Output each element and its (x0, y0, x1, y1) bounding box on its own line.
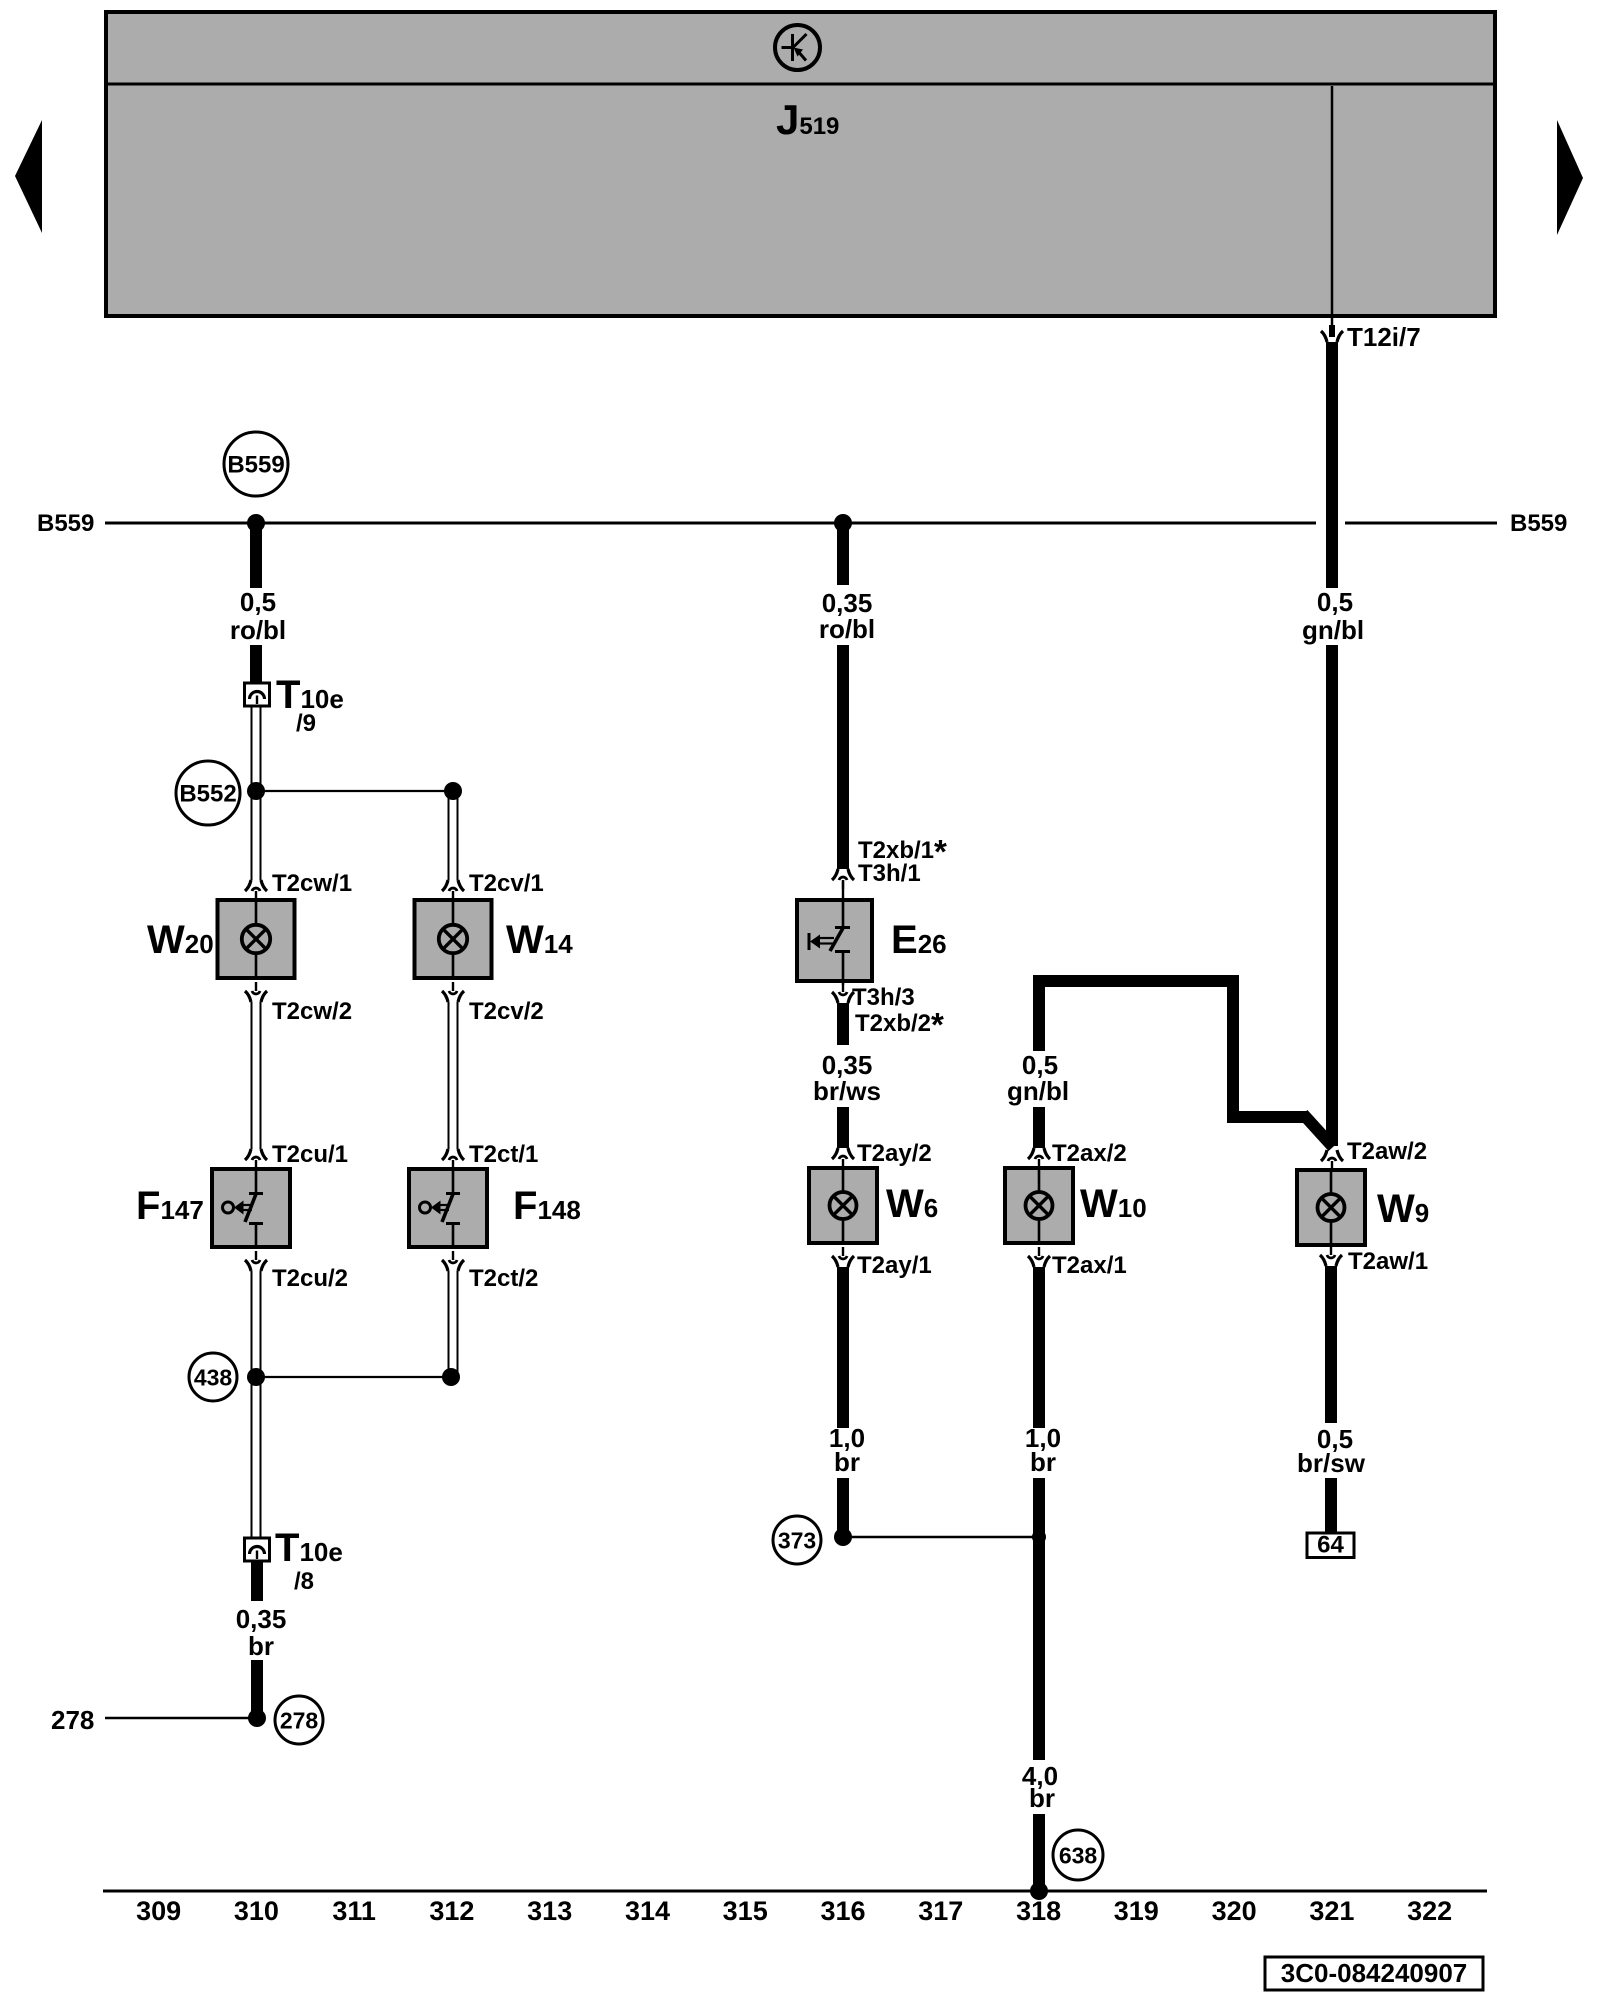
svg-text:ro/bl: ro/bl (230, 615, 286, 645)
svg-text:316: 316 (820, 1896, 865, 1926)
svg-text:W6: W6 (886, 1182, 938, 1226)
svg-text:gn/bl: gn/bl (1302, 615, 1364, 645)
svg-text:br: br (1030, 1447, 1056, 1477)
svg-text:318: 318 (1016, 1896, 1061, 1926)
svg-text:/8: /8 (294, 1568, 314, 1595)
svg-text:T2cv/1: T2cv/1 (469, 870, 544, 897)
svg-text:T2ax/1: T2ax/1 (1052, 1252, 1127, 1279)
svg-text:64: 64 (1317, 1532, 1344, 1559)
svg-text:0,5: 0,5 (1317, 587, 1353, 617)
svg-text:br/ws: br/ws (813, 1076, 881, 1106)
svg-text:br: br (834, 1447, 860, 1477)
svg-text:T2cu/2: T2cu/2 (272, 1265, 348, 1292)
svg-text:B552: B552 (179, 781, 236, 808)
svg-text:T2cu/1: T2cu/1 (272, 1141, 348, 1168)
svg-text:T12i/7: T12i/7 (1347, 322, 1421, 352)
svg-text:E26: E26 (891, 918, 947, 962)
svg-text:/9: /9 (296, 710, 316, 737)
svg-text:W20: W20 (147, 918, 214, 962)
svg-text:B559: B559 (227, 452, 284, 479)
svg-text:T3h/3: T3h/3 (852, 984, 915, 1011)
svg-text:315: 315 (723, 1896, 768, 1926)
svg-text:278: 278 (280, 1708, 319, 1734)
svg-text:278: 278 (51, 1705, 94, 1735)
svg-text:310: 310 (234, 1896, 279, 1926)
svg-text:T2aw/2: T2aw/2 (1347, 1138, 1427, 1165)
svg-text:T10e: T10e (275, 1526, 343, 1570)
svg-text:313: 313 (527, 1896, 572, 1926)
svg-text:438: 438 (194, 1365, 233, 1391)
svg-text:317: 317 (918, 1896, 963, 1926)
svg-text:320: 320 (1212, 1896, 1257, 1926)
svg-text:B559: B559 (37, 510, 94, 537)
svg-text:319: 319 (1114, 1896, 1159, 1926)
svg-text:311: 311 (332, 1896, 376, 1926)
svg-text:B559: B559 (1510, 510, 1567, 537)
svg-text:T2aw/1: T2aw/1 (1348, 1248, 1428, 1275)
svg-text:321: 321 (1309, 1896, 1354, 1926)
svg-text:0,35: 0,35 (236, 1604, 287, 1634)
svg-text:ro/bl: ro/bl (819, 614, 875, 644)
svg-text:638: 638 (1059, 1843, 1098, 1869)
svg-text:T2cw/1: T2cw/1 (272, 870, 352, 897)
svg-text:br/sw: br/sw (1297, 1448, 1366, 1478)
svg-text:T2cw/2: T2cw/2 (272, 998, 352, 1025)
svg-text:312: 312 (429, 1896, 474, 1926)
svg-text:322: 322 (1407, 1896, 1452, 1926)
svg-text:F148: F148 (513, 1184, 581, 1228)
svg-text:309: 309 (136, 1896, 181, 1926)
svg-text:314: 314 (625, 1896, 670, 1926)
svg-text:br: br (1029, 1783, 1055, 1813)
svg-text:T2ay/1: T2ay/1 (857, 1252, 932, 1279)
svg-text:gn/bl: gn/bl (1007, 1076, 1069, 1106)
svg-text:T2ct/1: T2ct/1 (469, 1141, 538, 1168)
svg-text:T2xb/2*: T2xb/2* (855, 1006, 944, 1043)
svg-text:3C0-084240907: 3C0-084240907 (1281, 1958, 1468, 1988)
svg-text:T2ct/2: T2ct/2 (469, 1265, 538, 1292)
svg-text:W9: W9 (1377, 1187, 1429, 1231)
svg-text:W14: W14 (506, 918, 573, 962)
svg-text:T2ay/2: T2ay/2 (857, 1140, 932, 1167)
svg-text:T3h/1: T3h/1 (858, 860, 921, 887)
svg-text:T2cv/2: T2cv/2 (469, 998, 544, 1025)
svg-text:0,5: 0,5 (240, 587, 276, 617)
svg-text:T2ax/2: T2ax/2 (1052, 1140, 1127, 1167)
svg-text:W10: W10 (1080, 1182, 1147, 1226)
svg-text:F147: F147 (136, 1184, 204, 1228)
svg-text:br: br (248, 1631, 274, 1661)
svg-text:373: 373 (778, 1528, 816, 1554)
